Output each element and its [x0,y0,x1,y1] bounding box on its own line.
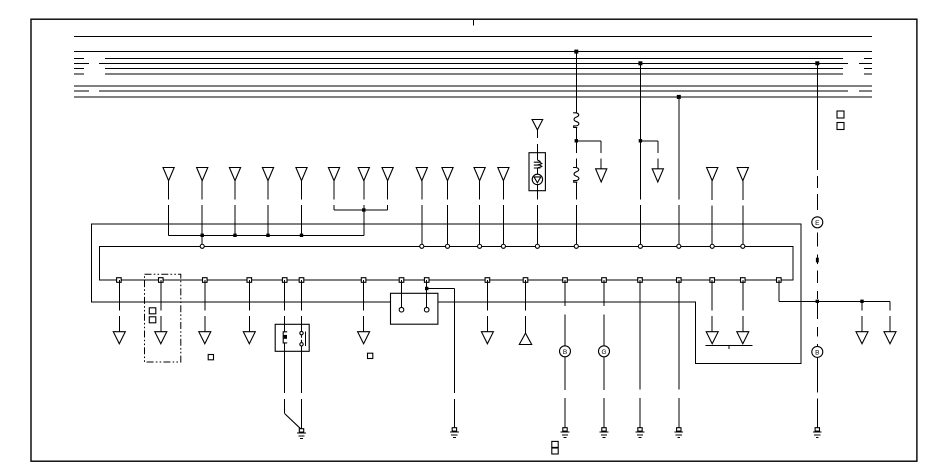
wire [479,181,481,244]
wire branch to arrow [640,140,657,142]
bus wire 4 [74,62,872,64]
junction ID circle B [560,346,571,357]
wire [502,181,504,244]
wire [363,181,365,236]
wire feed drop [678,97,680,244]
connector arrow T13 [707,168,718,181]
switch box [275,324,309,351]
wire [536,168,538,175]
wire (dashed) [284,351,286,413]
terminal circle [399,307,404,312]
heater coil element [534,160,542,168]
junction dot [233,234,236,237]
connector pin circle [501,244,505,248]
fusible link FL2 [573,168,579,183]
connector pin circle [420,244,424,248]
wire (dashed drop) [160,280,162,332]
wire (dashed drop) [248,280,250,332]
connector arrow [199,332,211,344]
connector code square a [149,308,156,314]
wire [301,346,303,351]
wire [536,153,538,161]
connector arrow T4 [262,168,273,181]
connector code square b [149,317,156,323]
connector pin square [602,278,607,283]
junction ID circle G [599,346,610,357]
lamp bulb [532,174,542,184]
wire (dashed) [301,351,303,429]
wire (dashed) [564,357,566,428]
connector arrow T9 [416,168,427,181]
wire (dashed) [816,303,818,346]
wire feed drop [639,63,641,244]
wire (dashed) [536,130,538,153]
connector pin square [282,278,287,283]
connector pin circle [741,244,745,248]
wire [301,181,303,236]
svg-text:G: G [601,349,606,356]
connector arrow T1 [163,168,174,181]
merge wire [334,209,388,211]
wire feed drop [575,52,577,113]
connector code square e [552,441,558,447]
wire (dashed) [816,176,818,210]
junction block outline [91,224,801,363]
wire (dashed drop) [742,280,744,332]
merge wire [169,234,364,236]
bus wire 9 [74,96,872,98]
wire [779,300,890,302]
connector pin square [117,278,122,283]
wire [387,181,389,210]
connector pin square [424,278,429,283]
wire (dashed) [816,357,818,428]
connector arrow T11 [474,168,485,181]
connector pin square [399,278,404,283]
wire (dashed) [678,280,680,428]
connector pin circle [535,244,539,248]
connector arrow T6 [328,168,339,181]
svg-text:E: E [815,220,820,227]
connector arrow [706,332,718,344]
junction dot [300,234,303,237]
cigarette lighter body [529,153,545,191]
connector arrow T3 [229,168,240,181]
svg-text:B: B [815,350,819,357]
ground point [299,429,303,432]
switch contact circle [300,331,303,334]
wire [447,181,449,244]
wire [363,210,365,235]
ground point [815,428,819,431]
switch blade (dashed) [301,335,303,342]
wire [426,280,428,293]
wire [816,63,818,170]
wire (dashed drop) [861,301,863,331]
wire (dashed drop) [204,280,206,332]
connector pin square [563,278,568,283]
wire (dashed drop) [600,141,602,169]
wire (dashed) [284,302,286,324]
svg-text:B: B [563,349,567,356]
wire (dashed) [603,280,605,346]
junction dot [860,300,863,303]
junction ID circle B2 [812,346,823,357]
wire [267,181,269,236]
connector pin square [299,278,304,283]
wire [234,181,236,236]
dash-dot boundary (optional equipment) [145,274,181,362]
wire [401,280,403,293]
connector pin circle [478,244,482,248]
junction dot on bus wire 4 [815,61,819,65]
wire [575,127,577,167]
connector pin square [710,278,715,283]
fusible link FL1 [573,113,579,128]
top border tick mark [473,20,475,26]
junction dot [201,234,204,237]
junction dot [816,300,819,303]
connector arrow [113,332,125,344]
bus wire 6 [74,73,872,75]
wire (dashed) [603,357,605,428]
connector pin square [247,278,252,283]
wire [301,280,303,302]
connector arrow T5 [296,168,307,181]
connector pin circle [445,244,449,248]
contact bracket [283,332,287,343]
wire (dashed) [453,289,455,429]
wire [711,181,713,244]
ground point [638,428,642,431]
connector pin square [159,278,164,283]
connector arrow T7 [358,168,369,181]
wire (dashed) [564,280,566,346]
junction ID circle E [812,217,823,228]
wire [401,293,403,307]
wire [284,324,286,332]
wire [284,280,286,302]
wire branch [427,288,455,290]
connector arrow T12 [498,168,509,181]
wire [742,181,744,244]
ground point [677,428,681,431]
connector arrow A14 [652,169,663,182]
wire [201,181,203,244]
bus wire 2 [74,51,872,53]
ground point [602,428,606,431]
wire (dashed) [301,302,303,324]
connector pin square [677,278,682,283]
wire [301,324,303,331]
connector arrow [856,332,868,344]
single connector code square [208,355,213,360]
connector arrow [358,332,370,344]
wire (dashed) [816,232,818,299]
junction dot on bus wire 2 [574,50,578,54]
switch actuator bar [305,331,307,346]
switch contact circle [300,343,303,346]
connector arrow T2 [197,168,208,181]
junction dot on bus wire 9 [677,95,681,99]
connector arrow (up) [519,333,531,344]
connector arrow T10 [442,168,453,181]
junction dot on bus wire 4 [638,61,642,65]
connector arrow A12 [532,120,543,130]
connector pin circle [638,244,642,248]
wire [778,280,780,301]
connector pin square [741,278,746,283]
connector pin circle [710,244,714,248]
wire (dashed drop) [657,141,659,169]
connector arrow [884,332,896,344]
terminal circle [424,307,429,312]
wire [284,343,286,351]
bus wire 7 [74,85,872,87]
single connector code square [368,353,373,358]
wire (dashed drop) [363,280,365,332]
connector pin square [777,278,782,283]
connector pin circle [200,244,204,248]
wire diagonal to ground [285,414,302,430]
connector code square c [837,111,844,118]
wire (dashed drop) [118,280,120,332]
connector pin circle [677,244,681,248]
connector arrow [243,332,255,344]
wire (dashed) [639,280,641,428]
connector code square f [552,448,558,454]
connector pin square [523,278,528,283]
junction dot [266,234,269,237]
connector arrow [155,332,167,344]
wire (dashed drop) [889,301,891,331]
wire [168,181,170,236]
connector pin square [203,278,208,283]
wire (dashed drop) [486,280,488,332]
connector code square d [837,123,844,130]
shield ground bar [705,344,752,346]
connector pin circle [574,244,578,248]
wire (dashed drop) [525,280,527,333]
bus wire 8 [74,90,872,92]
connector pin square [485,278,490,283]
connector arrow [481,332,493,344]
ground point [452,428,456,431]
wire (dashed drop) [711,280,713,332]
connector arrow T8 [382,168,393,181]
connector pin square [638,278,643,283]
junction dot [639,139,642,142]
junction dot [362,208,365,211]
connector pin square [361,278,366,283]
junction dot [575,139,578,142]
wire [421,181,423,244]
wire [536,185,538,244]
wire [575,182,577,244]
connector arrow T14 [737,168,748,181]
connector arrow [737,332,749,344]
bus wire 1 [74,35,872,37]
wire [333,181,335,210]
relay box [391,293,438,324]
wire branch to arrow [576,140,601,142]
ground point [563,428,567,431]
bus wire 5 [74,68,872,70]
connector strip (inner box) [99,246,793,280]
wire [426,293,428,307]
bus wire 3 [74,57,872,59]
splice tick [816,258,819,263]
connector arrow A13 [596,169,607,182]
junction dot [425,287,428,290]
